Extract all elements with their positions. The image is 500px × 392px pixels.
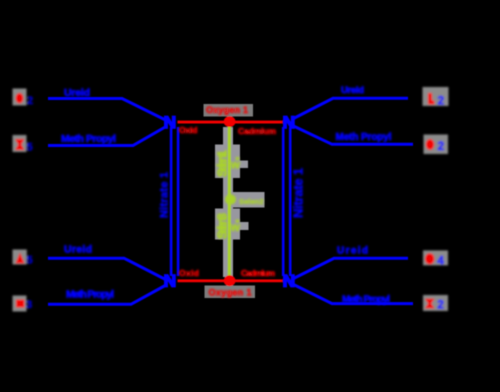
svg-text:Oxygen 1: Oxygen 1 xyxy=(206,105,248,115)
svg-text:Cadmium: Cadmium xyxy=(238,126,276,136)
svg-text:Meth Propyl: Meth Propyl xyxy=(61,133,116,145)
svg-text:Ureid: Ureid xyxy=(64,87,90,99)
wire bond N4-R5 bottom-right upper xyxy=(294,258,409,278)
svg-text:N: N xyxy=(164,113,176,132)
node label backing Se3 xyxy=(215,209,240,240)
svg-text:N: N xyxy=(283,113,295,132)
wire double bond N1=N3 left vertical xyxy=(170,127,173,276)
wire bond N1-L2 top-left lower xyxy=(48,126,167,146)
wire bond O1 top horizontal red xyxy=(178,121,283,124)
atom R2 terminal top-right 2 xyxy=(424,135,449,155)
svg-text:3: 3 xyxy=(26,299,32,311)
atom L2 terminal top-left 2 xyxy=(13,135,27,152)
wire bond N1-L1 top-left upper xyxy=(48,99,167,121)
svg-text:2: 2 xyxy=(438,139,445,153)
svg-text:2: 2 xyxy=(27,95,33,107)
svg-text:Selen3: Selen3 xyxy=(215,213,230,239)
svg-text:Selen2: Selen2 xyxy=(239,197,264,206)
svg-text:Meth Propyl: Meth Propyl xyxy=(66,288,114,300)
wire bond N4-R6 bottom-right lower xyxy=(294,285,414,304)
svg-text:5: 5 xyxy=(27,142,33,154)
svg-text:N: N xyxy=(283,272,295,291)
node label backing Se1 xyxy=(215,145,240,179)
svg-text:N: N xyxy=(164,272,176,291)
svg-text:Ureid: Ureid xyxy=(337,246,368,257)
atom R1 terminal top-right 1 xyxy=(423,87,449,106)
svg-text:Nitrate 1: Nitrate 1 xyxy=(291,168,306,218)
svg-text:5: 5 xyxy=(27,255,33,267)
wire bond Se chain vertical green xyxy=(228,126,231,277)
node label backing O2 bottom xyxy=(205,286,256,299)
wire bond N2-R1 top-right upper xyxy=(294,98,409,118)
node label backing O1 top xyxy=(204,104,254,117)
wire bond N3-L6 bottom-left lower xyxy=(48,285,167,305)
atom L6 terminal bottom-left 2 xyxy=(13,296,27,312)
svg-text:Ureid: Ureid xyxy=(341,85,364,96)
atom R5 terminal bottom-right 1 xyxy=(423,250,448,265)
svg-text:Oxid: Oxid xyxy=(179,125,198,135)
svg-text:Meth Propyl: Meth Propyl xyxy=(342,294,390,305)
node label backing Se2 xyxy=(232,192,265,208)
svg-text:4: 4 xyxy=(437,254,444,268)
atom O2 bottom red xyxy=(224,275,236,286)
atom L1 terminal top-left 1 xyxy=(13,89,27,106)
label green Se2 xyxy=(225,194,236,204)
wire bond N3-L5 bottom-left upper xyxy=(48,258,167,280)
svg-text:2: 2 xyxy=(437,298,444,312)
atom O1 top red xyxy=(224,116,236,127)
svg-text:Nitrate 1: Nitrate 1 xyxy=(159,172,171,218)
svg-text:Oxygen 1: Oxygen 1 xyxy=(209,287,252,297)
atom L5 terminal bottom-left 1 xyxy=(13,250,27,265)
wire bond N2-R2 top-right lower xyxy=(294,126,414,144)
svg-text:Ureid: Ureid xyxy=(64,243,92,255)
svg-text:Meth Propyl: Meth Propyl xyxy=(336,132,392,143)
svg-text:Oxid: Oxid xyxy=(179,268,199,278)
wire bond O2 bottom horizontal red xyxy=(178,279,283,282)
atom R6 terminal bottom-right 2 xyxy=(423,295,448,311)
svg-text:2: 2 xyxy=(438,94,445,108)
svg-text:Cadmium: Cadmium xyxy=(241,268,275,278)
wire double bond N2=N4 right vertical xyxy=(282,127,285,276)
svg-text:Selen1: Selen1 xyxy=(215,150,230,177)
node label backing Se chain xyxy=(223,127,233,277)
